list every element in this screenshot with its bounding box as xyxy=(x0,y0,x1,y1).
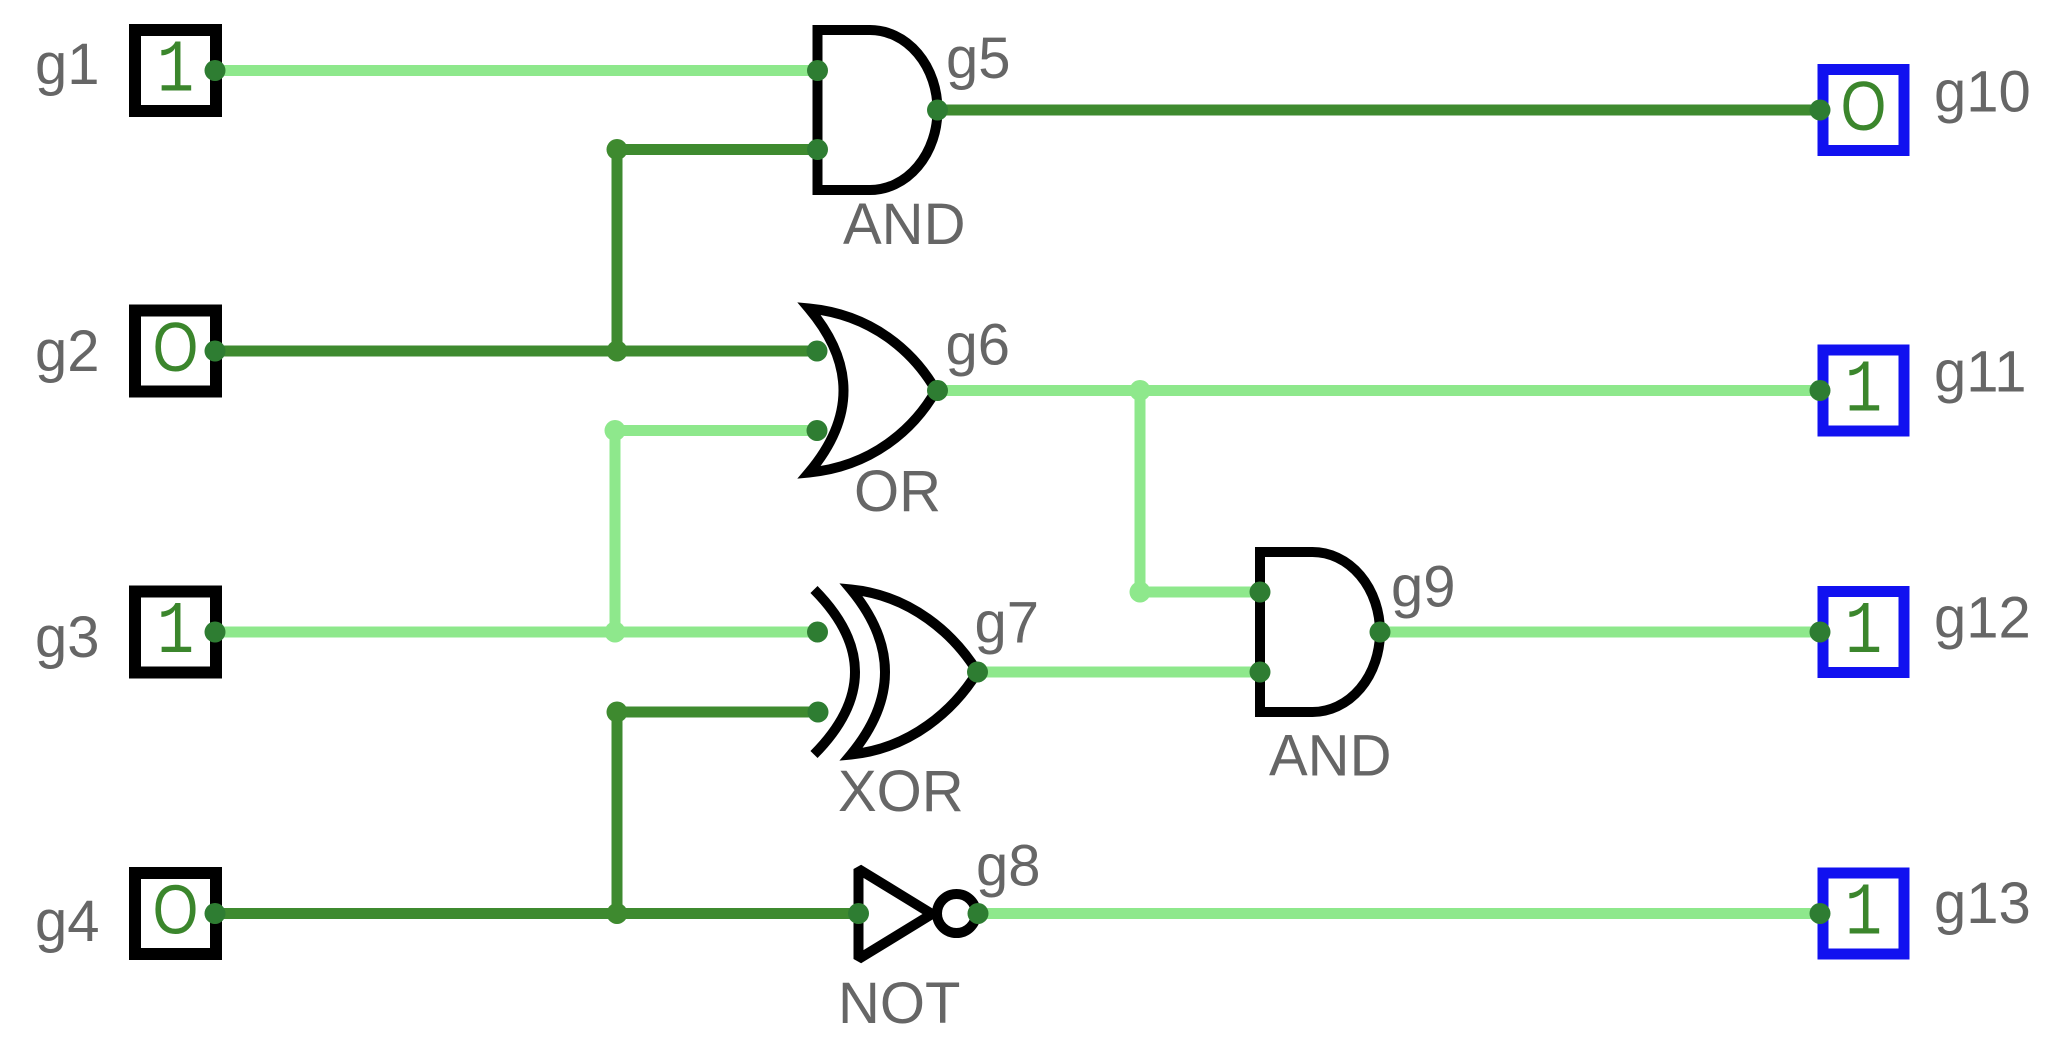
wire branch g3 net vertical riser xyxy=(610,431,621,633)
svg-text:g5: g5 xyxy=(946,26,1011,91)
svg-text:g7: g7 xyxy=(975,591,1040,656)
node g8 output port dot xyxy=(968,903,989,924)
node g9 output port dot xyxy=(1370,622,1391,643)
junction dot on g3 net xyxy=(605,622,626,643)
and-gate U g5 body xyxy=(818,30,938,190)
input switch g4 box (value O) xyxy=(135,870,216,954)
or-gate U g6 body xyxy=(809,309,936,473)
corner dot g6 net drop bottom xyxy=(1130,582,1151,603)
input switch g1 box (value 1) xyxy=(135,29,216,113)
node g5 input B port dot xyxy=(807,139,828,160)
node g11 input port dot xyxy=(1810,380,1831,401)
wire g8 output to g13 (logic 1) xyxy=(978,908,1820,919)
svg-text:g10: g10 xyxy=(1934,60,2031,125)
wire g1 output to g5 input A (logic 1) xyxy=(215,65,818,76)
svg-text:g6: g6 xyxy=(946,313,1011,378)
wire g7 output to g9 input B (logic 1) xyxy=(978,667,1261,678)
xor-gate U g7 body xyxy=(851,590,978,755)
node g5 output port dot xyxy=(927,100,948,121)
node g5 input A port dot xyxy=(807,60,828,81)
node g1 output port dot xyxy=(205,60,226,81)
svg-text:g13: g13 xyxy=(1934,871,2031,936)
svg-text:XOR: XOR xyxy=(838,759,964,824)
corner dot g3 net riser top xyxy=(605,420,626,441)
and-gate U g9 body xyxy=(1260,552,1380,712)
wire g9 output to g12 (logic 1) xyxy=(1380,627,1820,638)
output indicator g13 box (value 1) xyxy=(1823,872,1904,956)
svg-text:g8: g8 xyxy=(976,834,1041,899)
svg-text:1: 1 xyxy=(1845,349,1882,433)
node g4 output port dot xyxy=(205,903,226,924)
xor-gate U g7 input arc xyxy=(814,590,855,755)
junction dot on g4 net xyxy=(607,903,628,924)
node g6 input A port dot xyxy=(807,341,828,362)
wire g5 output to g10 (logic 0) xyxy=(938,105,1821,116)
output indicator g11 box (value 1) xyxy=(1823,349,1904,433)
wire branch g2 net vertical riser xyxy=(612,150,623,352)
wire g4 output to g8 input (logic 0) xyxy=(215,908,859,919)
wire branch g6 net vertical drop xyxy=(1135,391,1146,593)
svg-text:NOT: NOT xyxy=(838,971,960,1036)
node g10 input port dot xyxy=(1810,100,1831,121)
node g12 input port dot xyxy=(1810,622,1831,643)
svg-text:1: 1 xyxy=(157,29,194,113)
not-gate U g8 triangle xyxy=(859,869,933,959)
svg-text:g12: g12 xyxy=(1934,586,2031,651)
node g9 input A port dot xyxy=(1250,582,1271,603)
wire branch g6 net to g9 input A xyxy=(1140,587,1260,598)
svg-text:AND: AND xyxy=(1269,724,1391,789)
svg-text:O: O xyxy=(1841,66,1887,145)
svg-text:g3: g3 xyxy=(35,605,100,670)
wire g3 output to g7 input A (logic 1) xyxy=(215,627,818,638)
svg-text:g9: g9 xyxy=(1391,555,1456,620)
node g13 input port dot xyxy=(1810,903,1831,924)
junction dot on g2 net xyxy=(607,341,628,362)
input switch g3 box (value 1) xyxy=(135,590,216,674)
node g6 output port dot xyxy=(927,380,948,401)
svg-text:g2: g2 xyxy=(35,319,100,384)
wire branch g2 net to g5 input B xyxy=(617,144,818,155)
node g7 input B port dot xyxy=(808,702,829,723)
node g3 output port dot xyxy=(205,622,226,643)
wire branch g4 net vertical riser xyxy=(612,712,623,914)
wire g6 output to g11 (logic 1) xyxy=(938,385,1821,396)
svg-text:g11: g11 xyxy=(1934,340,2026,405)
svg-text:OR: OR xyxy=(854,459,941,524)
svg-text:1: 1 xyxy=(1845,872,1882,956)
node g7 output port dot xyxy=(967,662,988,683)
input switch g2 box (value O) xyxy=(135,307,216,391)
corner dot g4 net riser top xyxy=(607,702,628,723)
svg-text:O: O xyxy=(153,307,199,386)
junction dot on g6 net xyxy=(1130,380,1151,401)
svg-text:1: 1 xyxy=(1845,590,1882,674)
output indicator g12 box (value 1) xyxy=(1823,590,1904,674)
svg-text:AND: AND xyxy=(843,192,965,257)
svg-text:g1: g1 xyxy=(35,32,100,97)
node g9 input B port dot xyxy=(1250,662,1271,683)
svg-text:g4: g4 xyxy=(35,889,100,954)
node g2 output port dot xyxy=(205,341,226,362)
node g8 input port dot xyxy=(848,903,869,924)
wire branch g4 net to g7 input B xyxy=(617,707,818,718)
not-gate U g8 inversion bubble xyxy=(937,894,976,933)
wire g2 output to g6 input A (logic 0) xyxy=(215,346,817,357)
output indicator g10 box (value O) xyxy=(1823,66,1904,150)
corner dot g2 net riser top xyxy=(607,139,628,160)
node g6 input B port dot xyxy=(807,420,828,441)
node g7 input A port dot xyxy=(807,622,828,643)
wire branch g3 net to g6 input B xyxy=(615,425,817,436)
svg-text:1: 1 xyxy=(157,590,194,674)
svg-text:O: O xyxy=(153,870,199,949)
